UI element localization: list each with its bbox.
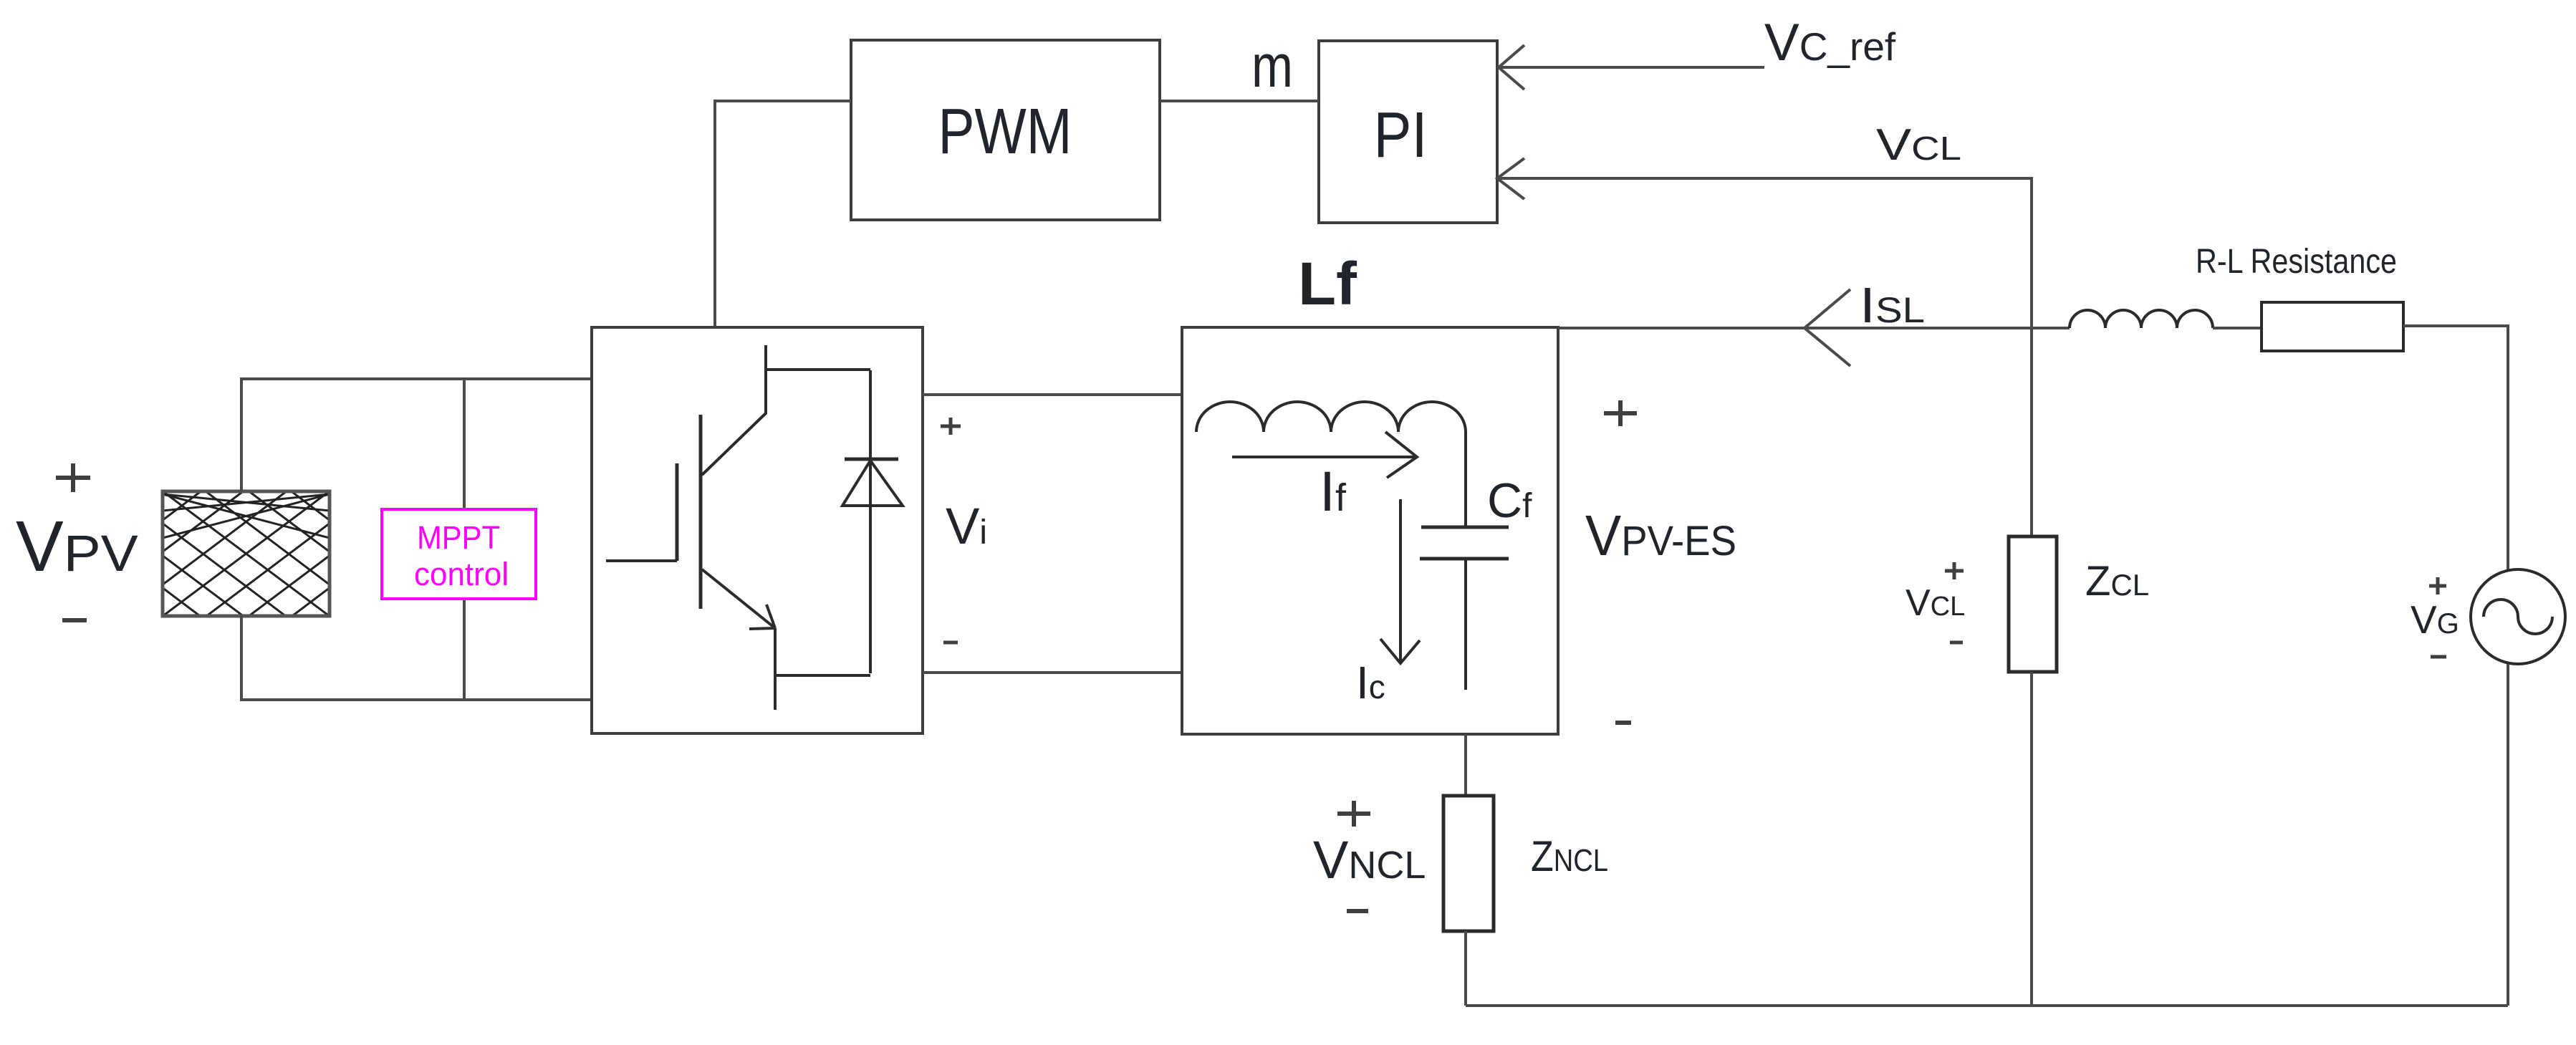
plus of VPV [56, 463, 90, 492]
minus of VG [2431, 655, 2446, 659]
wire VG bottom [2507, 664, 2509, 1006]
filter block (Lf/Cf) [1182, 327, 1558, 734]
AC source VG circle [2471, 569, 2565, 664]
capacitor Cf bottom lead [1464, 559, 1467, 690]
wire VCL feedback to PI [1497, 178, 2032, 536]
capacitor Cf bottom plate [1420, 557, 1509, 561]
plus of VG [2429, 577, 2446, 594]
transistor Q1 gate lead [606, 559, 677, 562]
plus of Vi [941, 418, 961, 435]
arrow Ic [1380, 499, 1420, 663]
transistor Q1 emitter lead [774, 628, 777, 710]
wire bottom bus [1466, 1004, 2508, 1007]
minus of VNCL [1347, 909, 1368, 913]
minus of VCL [1950, 641, 1963, 645]
arrowhead VCL [1497, 158, 1524, 199]
wire MPPT top tap [463, 379, 466, 509]
svg-text:m: m [1251, 32, 1293, 100]
minus of VPV-ES [1615, 721, 1631, 725]
wire coil to resistor [2213, 327, 2262, 329]
wire inverter out top (+) [923, 393, 1182, 396]
wire m (PI output to PWM) [1160, 100, 1319, 102]
AC source VG sine [2484, 599, 2552, 634]
capacitor Cf top plate [1421, 526, 1509, 529]
svg-text:MPPT: MPPT [417, 519, 500, 556]
inverter block [592, 327, 923, 733]
block PWM [851, 40, 1160, 220]
wire resistor to VG [2403, 326, 2508, 569]
plus of VPV-ES [1604, 400, 1637, 426]
wire ISL (top bus from R-L to Lf) [1558, 327, 2070, 329]
resistor R of R-L branch [2262, 302, 2403, 351]
wire PV top to inverter [241, 379, 592, 491]
resistor ZCL [2009, 536, 2057, 672]
plus of VCL [1945, 562, 1964, 579]
arrowhead ISL [1804, 289, 1850, 366]
diode D1 triangle [842, 461, 903, 506]
wire Lf bottom to ZNCL [1464, 734, 1467, 796]
wire collector to diode top [766, 368, 870, 371]
svg-text:R-L Resistance: R-L Resistance [2196, 243, 2397, 281]
transistor Q1 gate bar [676, 463, 679, 561]
block PI [1319, 41, 1497, 223]
transistor Q1 IGBT collector lead [702, 345, 766, 475]
resistor ZNCL [1443, 796, 1494, 931]
wire ZNCL bottom [1464, 931, 1467, 1006]
wire VC_ref input to PI [1499, 66, 1764, 69]
arrowhead VC_ref [1499, 45, 1524, 90]
diode D1 branch line [869, 370, 872, 673]
svg-text:control: control [414, 556, 509, 592]
svg-text:PI: PI [1374, 100, 1428, 171]
block MPPT control [382, 509, 536, 599]
wire PV bottom to inverter [241, 616, 592, 700]
wire ZCL bottom [2030, 672, 2033, 1006]
wire emitter to diode bottom [775, 674, 870, 677]
arrow If [1232, 432, 1417, 478]
wire PWM output to inverter gate [715, 101, 851, 327]
svg-text:PWM: PWM [938, 96, 1072, 168]
minus of Vi [943, 641, 958, 645]
transistor Q1 body bar [699, 415, 703, 609]
plus of VNCL [1337, 801, 1370, 827]
transistor Q1 emitter with arrow [702, 569, 775, 629]
wire MPPT bottom tap [463, 599, 466, 700]
diode D1 cathode bar [845, 458, 898, 461]
svg-text:Lf: Lf [1298, 250, 1357, 317]
inductor Lf coil [1196, 402, 1466, 527]
inductor L of R-L branch [2070, 310, 2213, 328]
minus of VPV [62, 618, 87, 622]
wire inverter out bottom (-) [923, 671, 1182, 674]
